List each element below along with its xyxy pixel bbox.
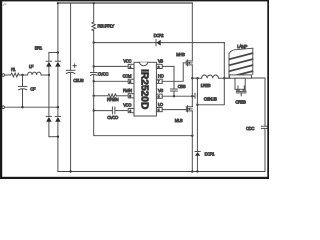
junction COM return xyxy=(191,135,193,137)
svg-text:CDC: CDC xyxy=(246,126,254,131)
junction COM xyxy=(93,80,95,82)
svg-text:IR2520D: IR2520D xyxy=(139,69,150,109)
svg-text:CF: CF xyxy=(30,86,36,91)
junction VS xyxy=(191,95,193,97)
svg-text:F1: F1 xyxy=(11,67,16,72)
junction bridge bottom xyxy=(57,136,59,138)
diode DCP2 xyxy=(154,33,165,46)
svg-text:CVCC: CVCC xyxy=(98,71,109,76)
node AC terminal bottom xyxy=(2,106,5,109)
capacitor CVCC xyxy=(90,66,108,81)
capacitor CF xyxy=(19,75,36,107)
wire bridge right column xyxy=(57,3,59,172)
pin box VCC 1 xyxy=(128,64,134,69)
pin box VCO 4 xyxy=(128,109,134,114)
svg-text:CSNUB: CSNUB xyxy=(204,97,217,102)
svg-text:VCC: VCC xyxy=(123,58,131,63)
fuse F1 xyxy=(11,67,20,77)
wire MLS source xyxy=(191,111,193,172)
pin box COM 2 xyxy=(128,79,134,84)
svg-text:DCP1: DCP1 xyxy=(205,152,216,157)
junction lamp node xyxy=(223,77,225,79)
wire COM return xyxy=(94,111,193,136)
resistor RSUPPLY xyxy=(92,3,114,43)
junction LRES tap xyxy=(191,77,193,79)
wire bottom rail xyxy=(58,171,265,173)
svg-text:VCO: VCO xyxy=(123,103,132,108)
wire bridge bottom link xyxy=(49,136,58,138)
wire VS row xyxy=(162,95,192,97)
diode BR1 D4 xyxy=(55,116,60,121)
junction CF bottom xyxy=(21,106,23,108)
transistor MLS xyxy=(175,106,193,123)
capacitor CBUS xyxy=(66,3,83,172)
wire LRES to lamp xyxy=(224,77,229,79)
wire COM down xyxy=(93,81,95,96)
svg-text:DCP2: DCP2 xyxy=(154,33,165,38)
junction RSUPPLY top xyxy=(93,2,95,4)
wire LO to gate xyxy=(162,109,186,111)
svg-text:FMIN: FMIN xyxy=(123,88,132,93)
op-amp U1 IR2520D body xyxy=(134,62,156,116)
pin box FMIN 3 xyxy=(128,94,134,99)
junction DCP2 node xyxy=(93,41,95,43)
wire VCC feed xyxy=(93,43,95,67)
svg-text:VS: VS xyxy=(158,88,163,93)
pin box LO 5 xyxy=(156,108,162,113)
junction CBS VS xyxy=(173,95,175,97)
wire VCC to pin xyxy=(94,65,129,67)
wire top rail xyxy=(58,2,193,4)
wire AC lower xyxy=(5,106,58,108)
pin box VS 6 xyxy=(156,94,162,99)
svg-text:MHS: MHS xyxy=(176,52,185,57)
junction snub line top xyxy=(196,77,198,79)
border frame xyxy=(0,0,269,179)
capacitor CVCO xyxy=(94,107,129,120)
svg-text:LRES: LRES xyxy=(201,83,211,88)
junction CBUS bottom rail xyxy=(69,170,71,172)
svg-text:CBS: CBS xyxy=(178,84,186,89)
svg-text:LO: LO xyxy=(158,102,164,107)
junction FMIN xyxy=(93,95,95,97)
junction bridge AC right xyxy=(57,106,59,108)
junction bridge left AC xyxy=(48,74,50,76)
junction DCP1 rail xyxy=(196,170,198,172)
svg-text:LAMP: LAMP xyxy=(237,44,247,49)
wire bridge left column xyxy=(48,53,50,137)
wire LF to bridge xyxy=(41,74,49,76)
wire MHS drain xyxy=(191,3,193,61)
capacitor CSNUB xyxy=(192,93,217,101)
wire HO to gate xyxy=(162,63,186,82)
resistor RFMIN xyxy=(94,94,129,102)
diode BR1 D1 xyxy=(46,61,51,66)
svg-text:CVCO: CVCO xyxy=(107,115,119,120)
wire snub vertical xyxy=(196,78,198,151)
svg-text:RFMIN: RFMIN xyxy=(107,97,119,102)
capacitor CDC xyxy=(246,126,268,171)
svg-text:CBUS: CBUS xyxy=(73,78,84,83)
junction rail top left xyxy=(57,2,59,4)
junction MLS rail xyxy=(191,170,193,172)
wire F1 to LF xyxy=(19,74,27,76)
junction CF top xyxy=(21,74,23,76)
wire MLS drain xyxy=(191,96,193,107)
wire FMIN down xyxy=(93,96,95,111)
wire MHS source xyxy=(191,65,193,96)
lamp LAMP spiral xyxy=(229,48,253,77)
capacitor CRES xyxy=(235,86,246,105)
capacitor CBS xyxy=(171,84,186,96)
node AC terminal top xyxy=(2,74,11,77)
lamp base stem xyxy=(235,78,245,89)
lamp base flange xyxy=(229,75,251,78)
svg-text:MLS: MLS xyxy=(175,118,183,123)
junction VCO xyxy=(93,109,95,111)
transistor MHS xyxy=(176,52,192,66)
svg-text:VB: VB xyxy=(158,58,163,63)
inductor LRES xyxy=(192,75,229,88)
wire VB to CBS xyxy=(162,66,174,88)
svg-text:LF: LF xyxy=(29,64,34,69)
pin box HO 7 xyxy=(156,79,162,84)
junction bridge top xyxy=(57,51,59,53)
pin box VB 8 xyxy=(156,64,162,69)
wire COM to pin xyxy=(94,80,129,82)
junction DCP1 node xyxy=(196,104,198,106)
wire bridge top link xyxy=(49,52,58,54)
diode BR1 D2 xyxy=(55,61,60,66)
svg-text:CRES: CRES xyxy=(235,99,246,104)
wire lamp to CDC xyxy=(252,78,266,126)
diode DCP1 xyxy=(195,152,215,172)
svg-text:RSUPPLY: RSUPPLY xyxy=(98,24,115,29)
inductor LF xyxy=(28,64,41,75)
artifact top-left xyxy=(3,4,6,6)
diode BR1 D3 xyxy=(46,116,51,121)
junction VCC xyxy=(93,65,95,67)
svg-text:HO: HO xyxy=(158,73,165,78)
svg-text:COM: COM xyxy=(122,73,131,78)
wire DCP2 row xyxy=(94,42,225,44)
wire snub node to lamp xyxy=(197,43,224,105)
svg-text:BR1: BR1 xyxy=(35,45,43,50)
